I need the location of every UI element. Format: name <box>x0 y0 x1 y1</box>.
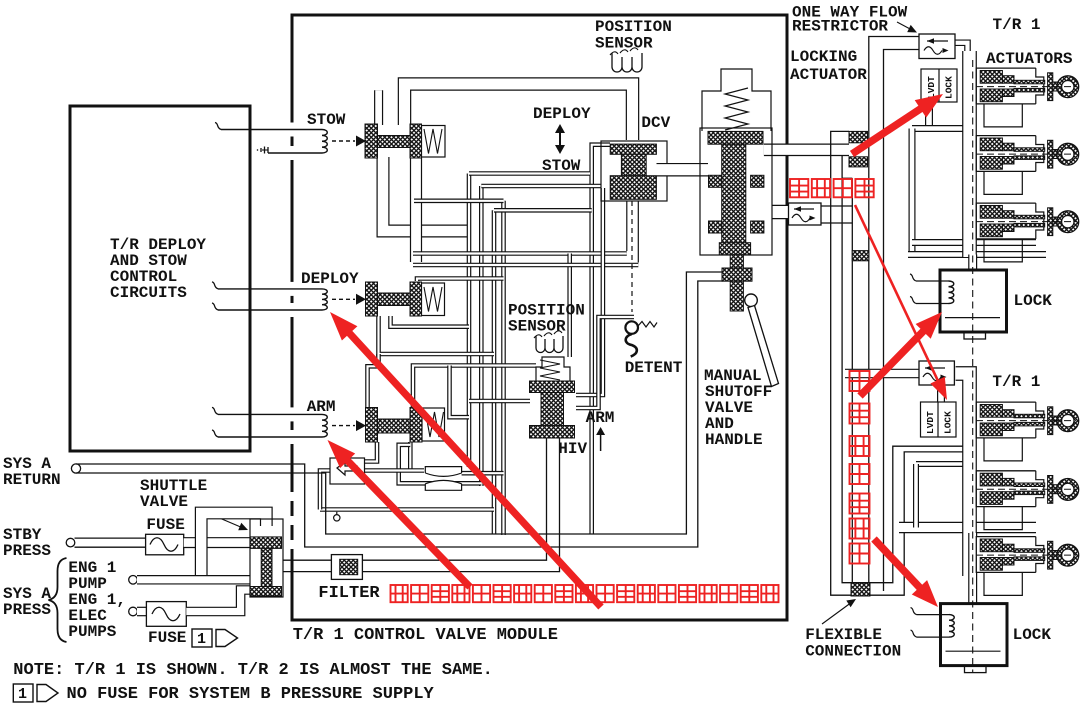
stow coil wires <box>221 129 322 131</box>
actuator piston <box>980 138 1002 151</box>
return valve column <box>722 144 746 243</box>
svg-text:LOCKING: LOCKING <box>790 48 857 66</box>
position sensor 2 coil <box>536 336 563 353</box>
return valve housing <box>700 128 772 255</box>
check valve box <box>330 458 365 484</box>
svg-text:DETENT: DETENT <box>625 359 683 377</box>
actuator rod <box>1014 80 1045 84</box>
flag 1 symbol <box>192 629 212 647</box>
actuator cylinder cy=221 <box>976 203 1036 239</box>
actuator lower housing <box>984 572 1022 595</box>
stow valve spool bar <box>378 136 411 148</box>
pipe left of DCV vertical <box>592 145 610 534</box>
svg-text:LOCK: LOCK <box>1014 292 1053 310</box>
deploy-stow double arrow <box>559 130 561 148</box>
wire pipe center vertical 1 <box>467 174 472 468</box>
detent zigzag <box>638 322 657 328</box>
group1 top link pipe <box>912 125 963 132</box>
actuator rod <box>1014 414 1045 418</box>
detent circle <box>625 321 638 334</box>
actuator eye <box>1053 551 1059 560</box>
flexible connection hatch <box>851 583 870 596</box>
svg-text:ARM: ARM <box>307 398 336 416</box>
restrictor3 left pipe <box>845 369 919 379</box>
seal junction upper hatch <box>849 131 868 142</box>
channel B pipe up to one way restrictor and down to flexible connection <box>869 37 919 592</box>
svg-text:LOCK: LOCK <box>944 76 955 99</box>
DCV bottom drop pipe walls <box>626 201 628 251</box>
lens restrictor 2 <box>425 480 461 490</box>
HIV bottom bar <box>530 426 575 439</box>
svg-text:DEPLOY: DEPLOY <box>533 105 591 123</box>
arm coil <box>322 414 327 437</box>
actuator cylinder cy=153.5 <box>976 136 1036 172</box>
svg-text:NO FUSE FOR SYSTEM B PRESSURE: NO FUSE FOR SYSTEM B PRESSURE SUPPLY <box>67 685 435 704</box>
red arrow X to lock 1 <box>860 328 926 396</box>
HIV spring <box>540 360 560 380</box>
group2 interconnect pipe <box>956 374 970 577</box>
lock solenoid coil <box>949 281 954 304</box>
eng1 elec pipe to fuse2 <box>137 607 146 617</box>
T/R 1 control valve module box <box>292 15 787 620</box>
svg-text:VALVE: VALVE <box>140 493 188 511</box>
lock1 top stub pipe <box>968 255 977 273</box>
group1 bottom pipe A <box>912 239 1036 246</box>
svg-text:T/R 1: T/R 1 <box>993 16 1041 34</box>
actuator centerline dashed <box>976 221 1076 223</box>
actuator lower housing <box>984 239 1022 262</box>
module border wire gaps <box>290 123 295 137</box>
lock internal line <box>946 650 1001 652</box>
actuator cylinder cy=554.5 <box>976 537 1036 573</box>
svg-text:PRESS: PRESS <box>3 542 51 560</box>
svg-text:FUSE: FUSE <box>148 629 186 647</box>
actuator rod end bar <box>1048 407 1053 435</box>
pipe fuse1 to shuttle valve <box>184 537 250 548</box>
lock box <box>940 270 1007 332</box>
actuator lower housing <box>984 104 1022 127</box>
red arrow to lvdt lock 1 <box>852 107 924 154</box>
actuator rod end bar <box>1048 541 1053 569</box>
pipe from stow valve to DCV top <box>405 84 633 140</box>
deploy wire breaks <box>212 282 218 310</box>
arm wire breaks <box>212 407 218 437</box>
actuator cylinder cy=488.7 <box>976 471 1036 507</box>
arm dashed actuation arrow <box>332 425 355 427</box>
DCV column <box>621 154 646 175</box>
return valve top bar <box>708 131 763 144</box>
stow coil <box>322 130 327 154</box>
hydraulic unlock restrictor box <box>789 203 822 225</box>
lvdt lock box 2 <box>921 402 957 437</box>
deploy valve spool bar <box>378 293 411 306</box>
pipe fuse2 to shuttle bottom <box>186 590 250 612</box>
pipe deploy valve bottom left down-east <box>379 316 495 354</box>
svg-text:CIRCUITS: CIRCUITS <box>110 284 187 302</box>
one way flow restrictor box <box>919 34 955 59</box>
svg-text:CONNECTION: CONNECTION <box>805 643 901 661</box>
pipe horizontal y265 to HIV drop 2 <box>413 263 638 268</box>
deploy valve spring box <box>422 283 445 316</box>
HIV spring housing <box>536 357 570 381</box>
actuator lower housing <box>984 507 1022 530</box>
svg-text:LVDT: LVDT <box>925 411 936 434</box>
svg-text:RETURN: RETURN <box>3 471 61 489</box>
actuator rod end bar <box>1048 476 1053 504</box>
shuttle valve housing <box>250 519 283 597</box>
sys A return end circle <box>71 464 80 473</box>
sys A return pipe outer wall <box>76 281 723 547</box>
left loop pipe wall outer <box>831 144 963 595</box>
svg-text:T/R 1 CONTROL VALVE MODULE: T/R 1 CONTROL VALVE MODULE <box>293 626 558 645</box>
sys A return pipe inner wall <box>76 272 723 534</box>
arm valve spool bar <box>378 419 411 433</box>
red bottom annotation text <box>391 585 408 602</box>
detent wave <box>626 334 637 357</box>
actuator piston <box>980 71 1002 84</box>
actuator piston stage2 <box>1002 478 1014 486</box>
return valve left wing lower <box>709 221 722 233</box>
T/R deploy and stow control circuits box <box>70 106 250 451</box>
pipe loop y509 <box>320 507 494 512</box>
svg-text:NOTE: T/R 1 IS SHOWN. T/R 2 IS: NOTE: T/R 1 IS SHOWN. T/R 2 IS ALMOST TH… <box>13 661 492 680</box>
svg-text:FILTER: FILTER <box>318 584 380 603</box>
actuator centerline dashed <box>976 420 1076 422</box>
flexible connection pointer <box>822 602 852 624</box>
stow valve spring box <box>422 126 446 158</box>
group1 actuator interconnect pipe <box>962 51 977 257</box>
actuator piston <box>980 405 1002 418</box>
svg-text:ACTUATORS: ACTUATORS <box>986 50 1073 68</box>
HIV top bar <box>530 381 575 393</box>
fuse 1 box <box>146 534 184 555</box>
stow coil wire break <box>215 123 221 130</box>
pipe to DCV left port B <box>481 184 601 189</box>
pipe return valve right to unlock restrictor <box>772 205 790 219</box>
shuttle valve pointer <box>196 508 243 528</box>
fuse 2 box <box>146 602 186 627</box>
svg-text:LOCK: LOCK <box>1013 626 1052 644</box>
restrictor3 to lvdt2 stub <box>937 385 945 403</box>
red note hydraulic unlock text <box>790 179 808 197</box>
actuator eye <box>1053 82 1059 91</box>
svg-text:PUMPS: PUMPS <box>68 623 116 641</box>
group2 left riser B <box>913 464 919 528</box>
actuator piston stage2 <box>1002 143 1014 151</box>
return valve right wing lower <box>751 221 764 233</box>
actuator cylinder cy=420 <box>976 402 1036 438</box>
svg-text:LOCK: LOCK <box>943 411 954 434</box>
svg-text:T/R 1: T/R 1 <box>992 373 1040 391</box>
lvdt1 bottom stub pipe <box>925 100 933 129</box>
red arrow to deploy coil <box>347 330 601 607</box>
svg-text:POSITION: POSITION <box>595 18 672 36</box>
pressure pipe shuttle to HIV upper wall <box>283 438 547 560</box>
pipe deploy valve bottom right down-east <box>391 316 470 327</box>
seal junction lower hatch <box>849 157 868 167</box>
arm valve spring <box>426 412 444 437</box>
one way flow restrictor pointer <box>897 22 912 30</box>
actuator eye <box>1053 217 1059 226</box>
pipe center vertical 3 <box>492 210 497 534</box>
seal junction housing <box>831 131 849 144</box>
actuator rod <box>1014 148 1045 152</box>
actuator piston stage2 <box>1002 544 1014 552</box>
svg-text:HIV: HIV <box>558 440 587 458</box>
group1 bottom pipe B <box>908 251 1046 258</box>
pipe arm valve top <box>368 354 379 408</box>
svg-text:FLEXIBLE: FLEXIBLE <box>805 626 882 644</box>
pressure pipe shuttle to HIV lower wall <box>283 438 560 572</box>
lock solenoid wires <box>917 614 950 616</box>
lvdt lock box 1 <box>921 69 957 102</box>
stow ground symbol <box>267 147 269 153</box>
manual shutoff cross bar <box>722 268 752 281</box>
actuator rod end bar <box>1048 140 1053 168</box>
shuttle valve bottom seal <box>250 587 282 597</box>
svg-text:1: 1 <box>18 686 27 703</box>
pipe arm valve bottom to check valve <box>365 442 377 462</box>
svg-text:STOW: STOW <box>307 111 346 129</box>
return valve spring housing <box>702 69 771 131</box>
deploy dashed actuation arrow <box>332 298 355 300</box>
pipe to DCV left port A <box>469 171 590 176</box>
svg-text:HANDLE: HANDLE <box>705 431 763 449</box>
pipe center vertical 4 <box>501 201 506 535</box>
HIV column <box>541 393 564 427</box>
pipe hiv left port <box>469 399 530 404</box>
deploy coil wires <box>218 288 322 290</box>
actuator centerline dashed <box>976 554 1076 556</box>
left loop pipe wall inner <box>842 178 963 582</box>
flag 2 symbol <box>13 684 33 702</box>
deploy coil <box>322 289 327 310</box>
lock2 top stub pipe <box>968 533 977 606</box>
T/R centerline dashed vertical <box>972 60 974 672</box>
actuator piston <box>980 473 1002 486</box>
pipe center vertical 2 <box>479 186 484 486</box>
pipe lens1 east to bundle <box>462 471 504 476</box>
pipe stow valve lower-left to center bundle <box>383 157 470 231</box>
channel A seal hatch <box>852 251 869 261</box>
actuator cylinder cy=86 <box>976 68 1036 104</box>
deploy valve spring <box>424 287 442 312</box>
actuator piston <box>980 539 1002 552</box>
pipe stow valve lower-right down <box>410 157 422 262</box>
plug port circle <box>334 515 340 521</box>
actuator centerline dashed <box>976 86 1076 88</box>
shuttle valve top loop pipe <box>201 513 266 580</box>
actuator piston <box>980 206 1002 219</box>
DCV top bar <box>610 144 656 154</box>
svg-text:ARM: ARM <box>586 409 615 427</box>
arm valve spring box <box>422 408 445 441</box>
pipe horizontal y201 <box>414 199 504 204</box>
eng1 pump pipe <box>137 575 250 585</box>
red arrow to lock 2 <box>874 539 922 590</box>
actuator centerline dashed <box>976 488 1076 490</box>
lock bottom tab <box>965 666 987 673</box>
svg-text:STOW: STOW <box>542 157 581 175</box>
manual shutoff neck lower <box>730 281 743 311</box>
shuttle valve column <box>261 548 272 586</box>
pipe return valve right to module edge <box>764 144 849 157</box>
module border dashed zone cover <box>290 477 295 557</box>
pipe lens riser to bundle <box>450 366 470 418</box>
position sensor top coil <box>612 53 642 72</box>
group2 bottom loop pipe <box>899 522 1036 533</box>
group1 left riser pipe <box>909 129 916 255</box>
pipe unlock restrictor to channel A <box>821 205 852 207</box>
stow valve right land <box>410 124 422 158</box>
restrictor 1 pipe right <box>955 43 968 132</box>
DCV housing <box>601 141 667 201</box>
pipe stow valve top-left stub <box>374 90 383 125</box>
red vertical text sync lock energize unlock <box>850 371 870 391</box>
restrictor 3 box <box>919 361 954 385</box>
red arrow to arm coil <box>345 458 470 587</box>
actuator piston stage2 <box>1002 410 1014 418</box>
return valve right wing upper <box>751 175 764 187</box>
return valve bottom bar <box>719 243 750 255</box>
svg-text:ACTUATOR: ACTUATOR <box>790 66 867 84</box>
lock solenoid wires <box>916 280 949 282</box>
return valve left wing upper <box>709 175 722 187</box>
actuator eye <box>1053 485 1059 494</box>
stow valve spring <box>424 129 442 154</box>
arm valve right land <box>410 408 422 443</box>
stby press end circle <box>66 538 75 547</box>
pipe deploy valve top to bundle <box>417 279 504 282</box>
return valve spring <box>725 88 748 130</box>
arm valve left land <box>366 408 378 443</box>
lock box <box>941 604 1008 666</box>
actuator lower housing <box>984 438 1022 461</box>
lock bottom tab <box>964 332 986 339</box>
actuator lower housing <box>984 171 1022 194</box>
eng1 elec end circle <box>129 607 138 616</box>
svg-text:SENSOR: SENSOR <box>508 318 566 336</box>
pipe DCV right to return valve <box>657 163 709 177</box>
svg-text:RESTRICTOR: RESTRICTOR <box>792 18 888 36</box>
stow valve left land <box>365 124 378 158</box>
actuator piston stage2 <box>1002 211 1014 219</box>
actuator rod <box>1014 215 1045 219</box>
actuator rod <box>1014 549 1045 553</box>
detent dashed link <box>631 201 633 312</box>
eng1 pump end circle <box>129 576 138 585</box>
svg-text:PRESS: PRESS <box>3 601 51 619</box>
svg-text:FUSE: FUSE <box>146 516 184 534</box>
pipe horizontal y253 to HIV drop <box>413 251 627 256</box>
actuator eye <box>1053 150 1059 159</box>
actuator rod <box>1014 483 1045 487</box>
arm coil wires <box>218 413 322 415</box>
actuator centerline dashed <box>976 153 1076 155</box>
filter element <box>340 559 358 574</box>
pipe arm valve right top to hiv spring <box>413 366 536 408</box>
pipe arm valve bottom west riser to lens2 <box>399 445 482 484</box>
shuttle valve top seal <box>250 537 282 549</box>
DCV bottom block <box>610 176 656 200</box>
svg-text:DEPLOY: DEPLOY <box>301 270 359 288</box>
deploy valve left land <box>366 282 378 316</box>
deploy valve right land <box>410 282 422 316</box>
lock solenoid coil <box>949 615 954 638</box>
pipe horizontal y210 <box>494 208 592 213</box>
group2 top link B <box>916 461 963 467</box>
pipe hiv right to detent riser <box>576 317 634 408</box>
manual shutoff handle <box>748 306 779 387</box>
stby press pipe <box>75 537 146 539</box>
check valve arrow <box>337 462 357 475</box>
manual shutoff neck upper <box>730 255 743 268</box>
actuator rod end bar <box>1048 208 1053 236</box>
svg-text:LVDT: LVDT <box>926 76 937 99</box>
lens restrictor 1 <box>425 467 461 477</box>
svg-text:DCV: DCV <box>641 114 670 132</box>
stow dashed actuation arrow <box>332 140 355 142</box>
manual shutoff handle pivot <box>745 294 758 307</box>
module border dashed segment <box>291 477 294 557</box>
actuator rod end bar <box>1048 73 1053 101</box>
lock internal line <box>945 317 1000 319</box>
red line hydraulic unlock to lvdt lock 2 <box>855 205 939 384</box>
actuator eye <box>1053 416 1059 425</box>
pipe check valve left loop <box>320 471 330 510</box>
pipe check valve to lens <box>365 468 425 473</box>
actuator piston stage2 <box>1002 76 1014 84</box>
filter box <box>331 555 362 580</box>
channel A pipe down from seal junction <box>851 178 853 582</box>
pipe arm valve right bottom to lens <box>408 442 413 471</box>
svg-text:1: 1 <box>197 631 206 648</box>
